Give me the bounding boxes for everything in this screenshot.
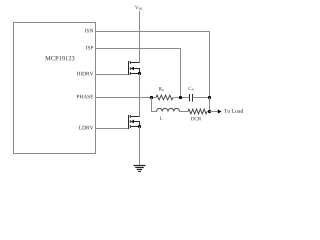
pin label PHASE [77, 95, 94, 99]
wire Q1 source through phase cross to Q2 drain [139, 74, 141, 117]
To Load arrow [218, 109, 222, 113]
wire DCR to output node [207, 111, 210, 113]
label L [160, 117, 163, 120]
transistor Q2 low-side N-MOSFET [129, 115, 140, 129]
wire sense node down to output [209, 98, 211, 112]
wire Vin rail down to Q1 drain [139, 11, 141, 63]
wire Cs to sense node [193, 97, 210, 99]
label Rs [159, 87, 164, 91]
node Q1 source junction dot [138, 72, 141, 75]
wire node A down to inductor branch [152, 98, 157, 112]
wire PHASE pin to node A [96, 97, 157, 99]
inductor L [157, 108, 180, 111]
label To Load [224, 109, 243, 113]
node ISP junction dot [179, 96, 182, 99]
wire ISP pin right then down to Rs-Cs junction [96, 49, 181, 98]
node Q2 source junction dot [138, 125, 141, 128]
resistor DCR [188, 109, 207, 114]
pin label HIDRV [77, 72, 94, 76]
power Vin label [135, 6, 142, 10]
node A phase branch junction dot [150, 96, 153, 99]
label Cs [189, 87, 194, 91]
wire L to DCR [180, 111, 189, 113]
node sense top junction dot [208, 96, 211, 99]
label DCR [191, 117, 201, 120]
wire LDRV pin to Q2 gate [96, 128, 129, 130]
transistor Q1 high-side N-MOSFET [129, 61, 140, 75]
resistor Rs [156, 95, 173, 100]
wire HIDRV pin to Q1 gate [96, 74, 129, 76]
pin label ISP [86, 46, 93, 50]
node output junction dot [208, 110, 211, 113]
wire Rs to Cs [173, 97, 190, 99]
ground [134, 166, 146, 172]
IC U1 MCP19123 box [14, 23, 96, 154]
wire Q2 source to ground [139, 127, 141, 166]
pin label LDRV [79, 126, 93, 130]
wire output node to load arrow [210, 111, 219, 113]
pin label ISN [85, 29, 93, 33]
capacitor Cs [190, 94, 193, 102]
wire ISN pin right then down to sense node [96, 32, 210, 98]
